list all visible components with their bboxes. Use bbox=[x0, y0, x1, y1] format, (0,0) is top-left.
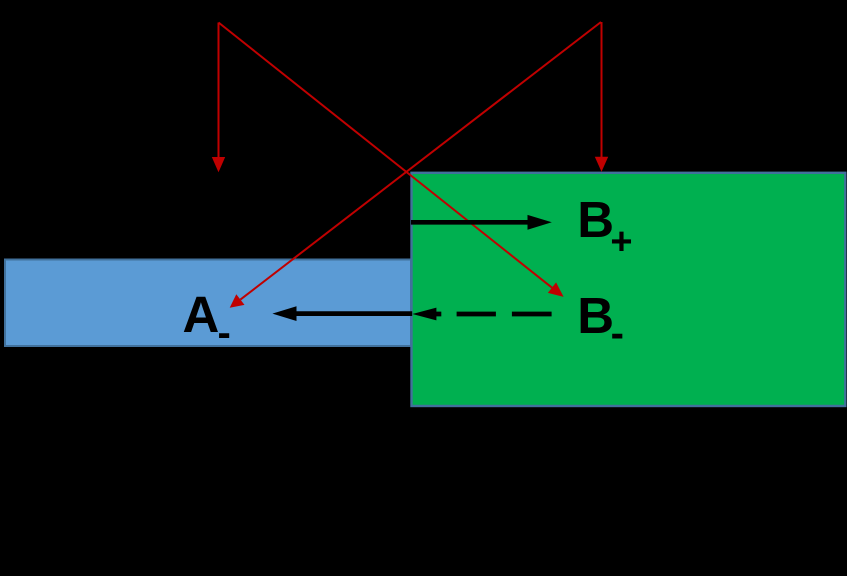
red pointer line (right vertical) bbox=[595, 22, 608, 172]
svg-text:+: + bbox=[610, 221, 632, 263]
red crossing line (left top to B- region) bbox=[219, 23, 564, 297]
svg-text:-: - bbox=[611, 311, 624, 355]
material A (blue slab) bbox=[5, 260, 411, 347]
svg-text:-: - bbox=[218, 311, 231, 355]
material B (green slab) bbox=[412, 173, 846, 406]
svg-text:B: B bbox=[577, 191, 614, 248]
black dashed arrow B- (left-pointing) bbox=[412, 308, 551, 321]
black arrow A- (left-pointing solid) bbox=[272, 306, 412, 321]
svg-text:A: A bbox=[183, 286, 220, 343]
red crossing line (right top to A- region) bbox=[230, 22, 601, 308]
black arrow B+ (right-pointing) bbox=[411, 215, 552, 230]
red pointer line (left vertical) bbox=[212, 23, 225, 173]
svg-text:B: B bbox=[577, 287, 614, 344]
